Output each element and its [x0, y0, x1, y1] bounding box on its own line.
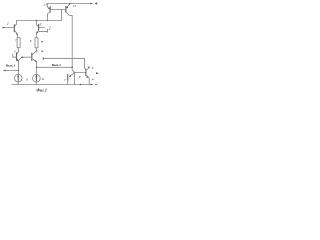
transistor Q13 emitter corner wire: [48, 4, 50, 9]
transistor Q4 collector: [37, 21, 39, 27]
transistor Q8 upper arrow: [88, 67, 90, 69]
node bottom rail terminal arrow: [91, 84, 94, 86]
wire output 2 horizontal: [37, 66, 73, 68]
node supply terminal arrow: [90, 3, 93, 5]
transistor Q5 collector: [17, 51, 19, 54]
transistor Q3 base bar: [13, 25, 15, 32]
wire Q5 base stub: [12, 54, 14, 57]
transistor Q6 base bar: [31, 53, 33, 60]
wire Q8 base: [75, 72, 86, 74]
transistor Q7 collector drop: [67, 80, 69, 84]
node dot top rail junction: [69, 3, 71, 5]
transistor Q8 emitter: [86, 75, 89, 84]
svg-text:6: 6: [36, 50, 38, 54]
transistor Q5 base bar: [16, 53, 18, 60]
wire Q4 emitter stub right: [39, 30, 47, 32]
wire R8 bottom stub: [35, 48, 37, 51]
wire long vertical to bottom mirror: [72, 16, 74, 73]
node dot output 2 tie: [72, 67, 73, 68]
node blob lower: [42, 50, 44, 52]
node dot Q4 collector junction: [36, 20, 38, 22]
wire I11 bottom stub: [35, 82, 37, 85]
svg-text:11: 11: [41, 77, 44, 81]
transistor Q8 emitter arrow: [86, 76, 88, 78]
transistor Q13 emitter arrow: [48, 7, 50, 9]
label plus supply: [95, 2, 98, 5]
current source I11 inner arrow: [35, 75, 37, 81]
svg-text:2: 2: [49, 27, 51, 31]
wire I10 bottom stub: [17, 82, 19, 85]
wire Q6 base to Q5 emitter diagonal: [19, 58, 22, 61]
node blob upper: [41, 41, 43, 43]
node input 1 terminal arrow: [3, 27, 6, 29]
node small mark above arrow: [92, 79, 93, 80]
svg-text:3: 3: [40, 23, 42, 27]
transistor Q7 base bar: [67, 75, 69, 81]
svg-text:12: 12: [73, 4, 77, 8]
wire input 2: [39, 27, 45, 29]
transistor Q7 emitter arrow: [69, 75, 71, 77]
transistor Q8 base bar: [85, 70, 87, 76]
node right edge terminal: [96, 72, 99, 74]
svg-text:13: 13: [44, 3, 48, 7]
svg-text:5: 5: [14, 49, 16, 53]
transistor Q13 base bar: [49, 7, 51, 13]
node Q6 base arrow: [21, 56, 23, 58]
current source I10 inner arrow: [17, 75, 19, 81]
wire mirror base link: [51, 9, 66, 11]
svg-text:7: 7: [64, 78, 66, 82]
svg-text:8: 8: [79, 75, 81, 79]
node dot rail junction Q13 collector: [47, 20, 49, 22]
transistor Q4 emitter arrow: [36, 31, 38, 33]
svg-text:8: 8: [30, 39, 32, 43]
transistor Q5 emitter: [17, 59, 19, 75]
node stub tick: [46, 29, 48, 32]
transistor Q12 emitter wire: [67, 4, 70, 8]
node dot Q7 vertex: [74, 72, 76, 74]
current source I11 circle: [33, 74, 41, 82]
wire first stage rail: [17, 20, 62, 22]
node output 1 terminal arrow: [3, 70, 6, 72]
transistor Q4 emitter: [37, 30, 39, 38]
node dot bottom rail: [80, 84, 82, 86]
node dot output 1 junction: [18, 70, 20, 72]
svg-text:1: 1: [7, 22, 9, 26]
transistor Q12 emitter arrow: [66, 6, 68, 8]
wire vertex to bottom rail: [74, 73, 76, 85]
transistor Q6 collector: [32, 51, 36, 55]
transistor Q5 emitter arrow: [17, 59, 19, 61]
wire Q8 collector feed: [43, 57, 84, 59]
wire mirror bases drop to first stage rail: [61, 10, 63, 21]
wire R7 bottom stub: [18, 48, 20, 52]
transistor Q12 base bar: [65, 7, 67, 13]
transistor Q4 base bar: [38, 24, 40, 30]
wire top supply rail: [48, 3, 91, 5]
transistor Q6 emitter: [32, 59, 36, 75]
transistor Q6 emitter arrow: [35, 60, 37, 62]
svg-text:1: 1: [21, 77, 23, 81]
current source I10 circle: [14, 74, 22, 82]
svg-text:Фиг.1: Фиг.1: [36, 87, 47, 92]
svg-text:0: 0: [26, 77, 28, 81]
label minus supply: [95, 83, 97, 85]
node feed wire left tick: [42, 57, 44, 60]
wire Q5 base: [13, 56, 16, 58]
transistor Q13 collector: [48, 12, 51, 20]
resistor R8 body: [35, 38, 38, 48]
transistor Q3 emitter: [15, 30, 18, 37]
svg-text:Вых.2: Вых.2: [52, 63, 61, 67]
wire input 1: [4, 27, 14, 29]
resistor R7 body: [17, 38, 20, 48]
wire bottom rail: [12, 84, 91, 86]
transistor Q7 emitter diagonal: [70, 73, 75, 77]
svg-text:7: 7: [15, 38, 17, 42]
svg-text:9: 9: [92, 66, 94, 70]
transistor Q3 collector: [15, 21, 17, 27]
transistor Q3 emitter arrow: [16, 33, 18, 35]
svg-text:Вых.1: Вых.1: [6, 64, 16, 68]
transistor Q12 collector: [66, 12, 72, 16]
node dot output 2 junction: [36, 67, 38, 69]
wire Q6 base: [22, 56, 32, 58]
wire Q8 collector vertical: [85, 58, 86, 69]
transistor Q8 upper diagonal: [86, 68, 89, 71]
wire output 1: [5, 70, 19, 72]
